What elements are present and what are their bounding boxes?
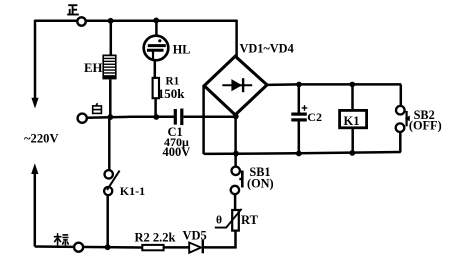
- capacitor C1: [174, 109, 184, 126]
- terminal 白 (white): [78, 114, 87, 123]
- wire top rail corner down to bridge top: [235, 20, 238, 57]
- junction dot right rail / K1: [350, 82, 356, 88]
- junction dot mid rail / R1: [153, 114, 159, 120]
- wire R1 bottom lead: [154, 98, 157, 117]
- svg-text:θ: θ: [216, 215, 222, 227]
- wire HL top lead: [155, 20, 158, 44]
- svg-text:(ON): (ON): [247, 177, 274, 191]
- wire C2 bottom lead: [298, 122, 301, 154]
- arrow down (AC source): [31, 98, 38, 109]
- svg-text:(OFF): (OFF): [409, 118, 442, 132]
- wire SB1 to RT: [234, 194, 237, 210]
- label 白: [93, 103, 102, 113]
- svg-text:400V: 400V: [163, 145, 191, 159]
- label 棕: [54, 233, 69, 245]
- svg-text:R2 2.2k: R2 2.2k: [135, 231, 176, 245]
- junction dot top rail / EH: [108, 18, 114, 24]
- wire C2 top lead: [298, 84, 301, 112]
- wire right rail corner down to SB2: [400, 84, 403, 106]
- heating element EH: [102, 55, 116, 80]
- pushbutton SB1 (ON): [231, 167, 243, 195]
- neon lamp HL: [144, 36, 169, 61]
- wire top rail: [35, 19, 237, 22]
- pushbutton SB2 (OFF): [396, 106, 410, 132]
- terminal 棕 (brown): [74, 243, 83, 252]
- junction dot mid rail / EH-K1-1 line: [107, 114, 113, 120]
- junction dot bridge bottom corner: [233, 114, 239, 120]
- wire left AC line upper: [34, 20, 37, 100]
- diode VD5: [189, 240, 203, 254]
- label 正: [67, 5, 79, 14]
- svg-text:RT: RT: [241, 213, 259, 227]
- junction dot bottom rail / C2: [296, 151, 302, 157]
- wire EH top lead: [110, 21, 113, 55]
- wire K1 top lead: [351, 84, 354, 110]
- svg-text:HL: HL: [173, 43, 191, 57]
- junction dot bottom rail / K1: [349, 150, 355, 156]
- wire K1-1 bottom lead: [106, 195, 109, 247]
- svg-text:EH: EH: [84, 61, 103, 75]
- junction dot bottom-mid rail / SB1 line: [233, 151, 239, 157]
- bridge rectifier VD1~VD4 (diamond): [204, 56, 267, 115]
- svg-text:C2: C2: [307, 110, 322, 124]
- svg-text:VD1~VD4: VD1~VD4: [240, 42, 294, 56]
- resistor R1: [153, 78, 159, 98]
- svg-text:K1-1: K1-1: [120, 184, 145, 198]
- svg-text:VD5: VD5: [183, 229, 207, 243]
- junction dot bottom-left rail / K1-1: [105, 244, 111, 250]
- wire right rail from bridge: [267, 83, 401, 86]
- svg-text:~220V: ~220V: [24, 131, 59, 145]
- wire SB2 bottom lead: [399, 132, 402, 153]
- wire bridge bottom corner down to SB1: [234, 115, 237, 167]
- wire HL to R1: [154, 60, 157, 78]
- wire left AC line lower: [34, 174, 37, 247]
- capacitor C2 (polarized): [291, 105, 307, 121]
- wire K1 bottom lead: [351, 128, 354, 153]
- thermistor RT: [215, 209, 242, 231]
- wire bridge left corner down: [202, 86, 205, 154]
- relay coil K1 (box): [340, 110, 367, 127]
- wire mid rail to K1-1: [108, 117, 111, 170]
- relay contact K1-1: [104, 170, 120, 195]
- svg-text:K1: K1: [344, 114, 360, 128]
- junction dot right rail / C2: [296, 82, 302, 88]
- wire bottom-mid rail: [204, 152, 401, 154]
- wire RT down and left to VD5: [204, 231, 237, 248]
- bridge inner diode: [222, 78, 252, 92]
- wire EH bottom lead: [109, 79, 112, 117]
- wire VD5 to R2: [164, 246, 189, 249]
- terminal 正 (positive input): [77, 17, 85, 25]
- wire mid rail left segment: [87, 117, 174, 118]
- wire bottom-left rail: [35, 247, 142, 248]
- junction dot top rail / HL: [153, 18, 159, 24]
- arrow up (AC source lower): [31, 163, 38, 174]
- resistor R2: [142, 245, 163, 250]
- svg-text:150k: 150k: [158, 86, 186, 101]
- wire mid rail right segment: [183, 116, 236, 119]
